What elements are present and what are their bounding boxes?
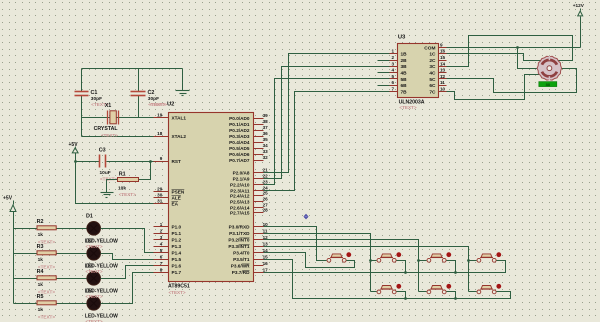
wire COM to motor left xyxy=(518,48,539,69)
wire P2.0 to U3 1B xyxy=(264,54,398,173)
svg-text:D1: D1 xyxy=(86,214,93,220)
wire D1 to P1.4 xyxy=(101,229,169,253)
svg-text:P0.5/AD5: P0.5/AD5 xyxy=(229,146,250,151)
U2 right pin stubs xyxy=(254,119,264,273)
wire R5 to LED D4 xyxy=(57,303,87,305)
svg-text:R1: R1 xyxy=(119,172,126,178)
svg-text:P2.5/A13: P2.5/A13 xyxy=(230,199,250,204)
U3 left pin numbers xyxy=(391,49,394,92)
svg-text:P0.6/AD6: P0.6/AD6 xyxy=(229,152,250,157)
motor value display xyxy=(539,82,557,87)
svg-text:P1.7: P1.7 xyxy=(172,270,182,275)
svg-text:6: 6 xyxy=(160,254,163,259)
ground xyxy=(176,91,190,96)
svg-text:4: 4 xyxy=(160,241,163,246)
svg-text:<TEXT>: <TEXT> xyxy=(86,244,103,249)
svg-text:EA: EA xyxy=(172,201,179,206)
stepper motor M1 xyxy=(537,56,562,81)
power +5V (reset) xyxy=(72,147,78,153)
svg-text:32: 32 xyxy=(263,155,269,160)
svg-text:25: 25 xyxy=(263,191,269,196)
wire 5C to motor right xyxy=(447,69,577,93)
U3 left pin names xyxy=(401,52,408,96)
LED D3 xyxy=(87,272,101,286)
wire SW5 left stub xyxy=(371,291,377,293)
wire SW6 left stub xyxy=(419,291,427,293)
wire 3C to motor upper-right xyxy=(447,36,573,67)
wire U3 2B stub xyxy=(378,60,398,62)
svg-text:1k: 1k xyxy=(38,257,44,263)
svg-text:2: 2 xyxy=(160,228,163,233)
svg-text:31: 31 xyxy=(157,199,163,204)
wire +5V to RST and EA xyxy=(76,153,169,204)
wire R3 to LED D2 xyxy=(57,253,87,255)
svg-text:35: 35 xyxy=(263,137,269,142)
wire SW3 right drop xyxy=(447,261,456,273)
svg-text:36: 36 xyxy=(263,131,269,136)
svg-text:4B: 4B xyxy=(401,71,408,77)
svg-text:29: 29 xyxy=(157,187,163,192)
svg-text:1C: 1C xyxy=(429,52,436,58)
svg-text:XTAL1: XTAL1 xyxy=(172,115,187,120)
wire RST net left xyxy=(76,161,100,163)
svg-text:+5V: +5V xyxy=(69,142,79,148)
wire C2 bottom lead xyxy=(138,96,140,118)
U3 right pin numbers xyxy=(440,42,446,91)
wire XTAL2 net xyxy=(82,136,169,138)
capacitor C2 xyxy=(131,92,146,96)
wire RST net right xyxy=(107,161,169,163)
junction P3.2/SW3 xyxy=(417,259,420,262)
svg-text:2B: 2B xyxy=(401,58,408,64)
svg-text:5C: 5C xyxy=(429,77,436,83)
wire U3 6B stub xyxy=(378,85,398,87)
wire rail to R2 xyxy=(14,228,38,230)
svg-text:18: 18 xyxy=(157,131,163,136)
svg-text:+5V: +5V xyxy=(3,196,13,202)
svg-text:P2.7/A15: P2.7/A15 xyxy=(230,210,250,215)
svg-text:39: 39 xyxy=(263,113,269,118)
junction P3.3/SW4 xyxy=(467,259,470,262)
wire P3.2 column xyxy=(264,240,419,292)
svg-text:15: 15 xyxy=(440,55,446,60)
svg-text:P1.1: P1.1 xyxy=(172,231,182,236)
U2 right pin numbers xyxy=(263,113,269,272)
U2 left pin names xyxy=(172,115,187,275)
svg-text:P2.4/A12: P2.4/A12 xyxy=(230,193,250,198)
svg-text:<TEXT>: <TEXT> xyxy=(86,269,103,274)
wire P3.0 to SW1 xyxy=(264,227,327,261)
wire ground rail top xyxy=(82,68,183,70)
wire SW3 left stub xyxy=(419,260,427,262)
svg-text:P1.6: P1.6 xyxy=(172,264,182,269)
svg-text:P2.0/A8: P2.0/A8 xyxy=(233,170,250,175)
wire R1 left lead to ground xyxy=(107,180,118,193)
wire +12V drop xyxy=(580,17,582,48)
svg-text:33: 33 xyxy=(263,149,269,154)
svg-text:1B: 1B xyxy=(401,52,408,58)
node origin marker xyxy=(304,214,309,220)
svg-text:22: 22 xyxy=(263,174,269,179)
svg-text:<TEXT>: <TEXT> xyxy=(101,133,118,138)
wire +5V rail vertical xyxy=(13,212,15,304)
svg-text:P3.0/RXD: P3.0/RXD xyxy=(229,225,250,230)
svg-text:P3.2/INT0: P3.2/INT0 xyxy=(228,238,250,243)
svg-text:1k: 1k xyxy=(38,282,44,288)
U3 right pin names xyxy=(424,45,436,95)
svg-text:30: 30 xyxy=(157,193,163,198)
svg-text:23: 23 xyxy=(263,180,269,185)
push button SW7 xyxy=(477,284,501,294)
U3 right pin stubs xyxy=(439,48,447,92)
wire D2 to P1.5 xyxy=(101,254,169,260)
svg-text:6B: 6B xyxy=(401,83,408,89)
wire rail to R4 xyxy=(14,278,38,280)
ground (reset) xyxy=(101,193,114,198)
svg-text:<TEXT>: <TEXT> xyxy=(119,192,136,197)
svg-text:P0.2/AD2: P0.2/AD2 xyxy=(229,128,250,133)
svg-text:P1.4: P1.4 xyxy=(172,251,182,256)
svg-text:10uF: 10uF xyxy=(100,170,111,176)
svg-text:1k: 1k xyxy=(38,307,44,313)
LED D2 xyxy=(87,247,101,261)
svg-text:R3: R3 xyxy=(37,244,44,250)
wire R4 to LED D3 xyxy=(57,278,87,280)
svg-text:P0.7/AD7: P0.7/AD7 xyxy=(229,158,250,163)
svg-text:34: 34 xyxy=(263,143,269,148)
wire U3 4B stub xyxy=(378,72,398,74)
svg-text:P1.5: P1.5 xyxy=(172,257,182,262)
push button SW4 xyxy=(477,252,501,262)
svg-text:5: 5 xyxy=(160,248,163,253)
push button SW1 xyxy=(327,252,351,262)
svg-text:38: 38 xyxy=(263,119,269,124)
svg-text:<TEXT>: <TEXT> xyxy=(399,105,416,110)
power +12V xyxy=(578,9,583,16)
svg-text:7: 7 xyxy=(160,261,163,266)
svg-text:4: 4 xyxy=(391,68,394,73)
svg-text:5: 5 xyxy=(391,74,394,79)
svg-text:X1: X1 xyxy=(105,103,112,109)
svg-text:37: 37 xyxy=(263,125,269,130)
LED D4 xyxy=(87,297,101,311)
svg-text:C1: C1 xyxy=(91,90,98,96)
svg-text:28: 28 xyxy=(263,208,269,213)
svg-text:<TEXT>: <TEXT> xyxy=(38,315,55,320)
junction SW6/rail xyxy=(454,297,457,300)
svg-text:7B: 7B xyxy=(401,89,408,95)
svg-text:3B: 3B xyxy=(401,64,408,70)
svg-text:26: 26 xyxy=(263,197,269,202)
svg-text:P1.2: P1.2 xyxy=(172,238,182,243)
svg-text:P1.0: P1.0 xyxy=(172,225,182,230)
svg-text:C3: C3 xyxy=(99,148,106,154)
svg-text:<TEXT>: <TEXT> xyxy=(86,294,103,299)
wire rail to R3 xyxy=(14,253,38,255)
wire P3.4 to SW1 right xyxy=(264,253,355,268)
svg-text:P3.3/INT1: P3.3/INT1 xyxy=(228,244,250,249)
wire P2.3 to U3 7B xyxy=(264,92,398,191)
wire COM to +12V xyxy=(447,47,581,49)
U3 left pin stubs xyxy=(390,54,398,92)
push button SW2 xyxy=(377,252,401,262)
svg-text:7C: 7C xyxy=(429,89,436,95)
svg-text:16: 16 xyxy=(263,261,269,266)
wire D4 to P1.7 xyxy=(101,273,169,304)
svg-text:R4: R4 xyxy=(37,269,44,275)
wire P3.3 column xyxy=(264,247,469,292)
capacitor C3 xyxy=(100,155,106,168)
svg-text:12: 12 xyxy=(440,74,446,79)
wire C1 bottom lead to XTAL2 net xyxy=(81,96,83,137)
svg-text:P0.4/AD4: P0.4/AD4 xyxy=(229,140,250,145)
junction R1/RST xyxy=(149,160,152,163)
svg-text:C2: C2 xyxy=(148,90,155,96)
svg-text:21: 21 xyxy=(263,168,269,173)
svg-text:P0.3/AD3: P0.3/AD3 xyxy=(229,134,250,139)
svg-text:9: 9 xyxy=(440,42,443,47)
svg-text:10k: 10k xyxy=(118,185,126,191)
junction P3.1/SW2 xyxy=(369,259,372,262)
svg-text:1: 1 xyxy=(391,49,394,54)
svg-text:17: 17 xyxy=(263,267,269,272)
push button SW5 xyxy=(377,284,401,294)
svg-text:19: 19 xyxy=(157,113,163,118)
svg-text:U2: U2 xyxy=(167,102,174,108)
svg-text:9: 9 xyxy=(160,156,163,161)
wire SW2 right drop xyxy=(397,261,406,273)
svg-text:4C: 4C xyxy=(429,71,436,77)
svg-text:COM: COM xyxy=(424,45,435,51)
svg-text:15: 15 xyxy=(263,254,269,259)
svg-text:<TEXT>: <TEXT> xyxy=(169,290,186,295)
wire SW5 right drop xyxy=(397,292,406,299)
U2 left pin stubs xyxy=(154,118,169,273)
U2 left pin numbers xyxy=(157,113,163,273)
wire 7C to motor lower-left xyxy=(447,75,542,100)
svg-text:P3.1/TXD: P3.1/TXD xyxy=(229,231,250,236)
svg-text:CRYSTAL: CRYSTAL xyxy=(94,126,119,132)
svg-text:P2.1/A9: P2.1/A9 xyxy=(233,176,250,181)
svg-text:P3.5/T1: P3.5/T1 xyxy=(233,257,250,262)
junction SW2/P3.7 xyxy=(404,271,407,274)
svg-text:<TEXT>: <TEXT> xyxy=(150,102,167,107)
svg-text:2: 2 xyxy=(391,55,394,60)
wire P3.1 column xyxy=(264,234,371,292)
wire SW4 left stub xyxy=(469,260,477,262)
wire R1 right lead to RST xyxy=(139,162,151,180)
wire 1C to motor upper-left xyxy=(447,54,542,61)
junction COM/motor common xyxy=(516,46,519,49)
svg-text:13: 13 xyxy=(440,68,446,73)
power +5V (LED rail) xyxy=(10,201,16,212)
svg-text:PSEN: PSEN xyxy=(172,189,185,194)
svg-text:P0.0/AD0: P0.0/AD0 xyxy=(229,116,250,121)
svg-text:10: 10 xyxy=(440,87,446,92)
svg-text:6C: 6C xyxy=(429,83,436,89)
svg-text:XTAL2: XTAL2 xyxy=(172,134,187,139)
U2 right pin names xyxy=(228,116,250,275)
push button SW3 xyxy=(427,252,451,262)
svg-text:8: 8 xyxy=(160,267,163,272)
wire XTAL1 net xyxy=(82,117,169,119)
svg-text:3: 3 xyxy=(160,235,163,240)
svg-text:11: 11 xyxy=(440,80,445,85)
svg-text:P3.4/T0: P3.4/T0 xyxy=(233,251,250,256)
svg-text:R2: R2 xyxy=(37,219,44,225)
wire D3 to P1.6 xyxy=(101,266,169,279)
svg-text:1k: 1k xyxy=(38,232,44,238)
svg-text:16: 16 xyxy=(440,49,446,54)
wire P3.5 bottom rail xyxy=(264,260,511,299)
svg-text:7: 7 xyxy=(391,87,394,92)
wire ground drop xyxy=(182,69,184,91)
IC U3 body (ULN2003A) xyxy=(398,44,439,98)
wire P3.7 rail xyxy=(264,261,506,273)
svg-text:3C: 3C xyxy=(429,64,436,70)
capacitor C1 xyxy=(75,92,89,96)
resistor R5 xyxy=(37,301,56,305)
svg-text:P2.2/A10: P2.2/A10 xyxy=(230,182,250,187)
wire C2 top lead xyxy=(138,69,140,92)
wire C1 top lead xyxy=(81,69,83,92)
svg-text:11: 11 xyxy=(263,228,268,233)
svg-text:13: 13 xyxy=(263,241,269,246)
svg-text:RST: RST xyxy=(172,159,182,164)
wire rail to R5 xyxy=(14,303,38,305)
op-amp U2 body (AT89C51 IC) xyxy=(169,113,254,282)
wire R2 to LED D1 xyxy=(57,228,87,230)
junction SW5/rail xyxy=(404,297,407,300)
svg-text:P3.6/WR: P3.6/WR xyxy=(231,264,250,269)
svg-text:3: 3 xyxy=(391,61,394,66)
resistor R2 xyxy=(37,226,56,230)
resistor R3 xyxy=(37,251,56,255)
svg-text:1: 1 xyxy=(160,222,163,227)
svg-text:14: 14 xyxy=(440,61,446,66)
svg-text:P1.3: P1.3 xyxy=(172,244,182,249)
wire P2.1 to U3 3B xyxy=(264,67,398,179)
resistor R1 xyxy=(118,178,139,182)
wire P2.2 to U3 5B xyxy=(264,79,398,185)
resistor R4 xyxy=(37,276,56,280)
svg-text:AT89C51: AT89C51 xyxy=(168,284,190,290)
wire SW7 left stub xyxy=(469,291,477,293)
svg-text:5B: 5B xyxy=(401,77,408,83)
svg-text:R5: R5 xyxy=(37,294,44,300)
svg-text:P3.7/RD: P3.7/RD xyxy=(232,270,250,275)
svg-text:U3: U3 xyxy=(398,35,406,41)
wire SW6 right drop xyxy=(447,292,456,299)
junction +5V/RST xyxy=(74,160,77,163)
svg-text:88: 88 xyxy=(546,82,551,87)
LED D1 xyxy=(87,222,101,236)
svg-text:+12V: +12V xyxy=(573,3,585,8)
junction SW3/P3.7 xyxy=(454,271,457,274)
crystal X1 xyxy=(108,111,119,125)
svg-text:2C: 2C xyxy=(429,58,436,64)
svg-text:P0.1/AD1: P0.1/AD1 xyxy=(229,122,250,127)
svg-text:6: 6 xyxy=(391,80,394,85)
push button SW6 xyxy=(427,284,451,294)
wire SW2 left stub xyxy=(371,260,377,262)
svg-text:ALE: ALE xyxy=(172,195,181,200)
